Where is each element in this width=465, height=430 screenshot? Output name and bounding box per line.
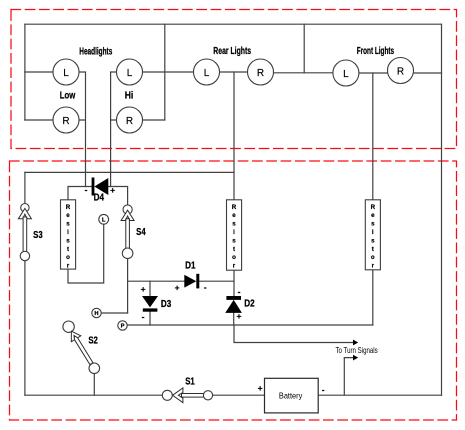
wire: rear tap down to middle resistor (233, 72, 235, 200)
svg-text:R: R (126, 116, 133, 127)
svg-text:-: - (142, 312, 145, 322)
pilot lamp L (99, 214, 109, 224)
lower dashed enclosure (control zone) (10, 161, 457, 420)
wire: mid horizontal feed to middle resistor (25, 171, 234, 173)
svg-text:Front Lights: Front Lights (357, 46, 394, 57)
svg-text:+: + (110, 185, 115, 195)
svg-text:S2: S2 (88, 335, 98, 346)
svg-text:L: L (127, 68, 133, 79)
resistor R-right (365, 200, 380, 270)
wire: Rear L to Rear R with tap (220, 71, 248, 73)
lamp Front-R (388, 58, 414, 84)
lamp letters (62, 67, 404, 128)
pilot lamp P (118, 321, 127, 330)
switch S3 (18, 204, 43, 261)
wire: bottom bus to S1 (25, 394, 163, 396)
wire: Front R to right bus (413, 72, 441, 74)
node arrow: to turn signals lower (353, 355, 358, 361)
svg-text:-: - (204, 282, 207, 292)
pilot lamp H (92, 308, 101, 317)
wire: S3 to bottom bus (24, 261, 26, 396)
svg-text:+: + (237, 311, 242, 321)
wire: D3 bottom leg (149, 312, 151, 325)
wire: H pilot to S4 vertical (101, 312, 127, 314)
lamp Low-R (53, 107, 79, 133)
wire: S4 bottom to H corner (127, 259, 129, 314)
svg-text:D2: D2 (244, 298, 255, 309)
wire: S2 bottom to bottom bus (93, 374, 95, 396)
wire: D4 row left to resistor corner (68, 187, 92, 200)
wire: Low L feed (25, 71, 53, 73)
svg-text:L: L (102, 217, 106, 223)
wire: Hi R to vertical (143, 119, 165, 121)
lamp Hi-R (117, 107, 143, 133)
svg-text:L: L (204, 68, 210, 79)
svg-text:D1: D1 (185, 261, 196, 272)
wire: D2 to P row (233, 313, 235, 325)
svg-text:To Turn Signals: To Turn Signals (336, 345, 378, 355)
wire: Front L to Front R (359, 72, 388, 74)
wire: divider vertical from top bus (303, 24, 305, 73)
wire: Hi lamps common vertical down to D4 anode (111, 72, 117, 187)
svg-text:R: R (397, 67, 404, 78)
wire: left drop to S3 (24, 172, 26, 203)
node arrow: to turn signals upper (353, 340, 358, 346)
section labels (60, 46, 394, 101)
lamp Front-L (333, 60, 359, 86)
svg-text:+: + (175, 283, 180, 293)
svg-text:Low: Low (60, 91, 76, 102)
svg-text:+: + (141, 284, 146, 294)
svg-text:-: - (85, 185, 88, 195)
svg-text:D4: D4 (94, 192, 105, 203)
wire: S1 to battery plus (213, 394, 265, 396)
svg-text:-: - (322, 385, 325, 395)
lamp Rear-R (248, 59, 274, 85)
wire: D1 row (128, 280, 234, 282)
svg-text:+: + (258, 383, 263, 393)
svg-text:H: H (94, 311, 98, 317)
svg-text:-: - (238, 287, 241, 297)
wire: top bus (25, 23, 442, 25)
diode D4 (92, 178, 109, 196)
wire: D3 top leg (149, 281, 151, 296)
svg-text:S4: S4 (136, 227, 146, 238)
wire: front tap down to right resistor (372, 73, 374, 200)
lamp Low-L (53, 59, 79, 85)
wire: P row (127, 324, 373, 326)
resistor R-middle (227, 200, 242, 270)
wire: middle resistor bottom through D1 node to D2 (233, 270, 235, 296)
diode D1 (184, 274, 199, 289)
diode D2 (225, 296, 242, 313)
wire: D4 row right to S4 corner (108, 187, 127, 205)
svg-text:Battery: Battery (279, 392, 302, 401)
diode D3 (142, 296, 158, 312)
switch S1 (162, 376, 212, 402)
svg-text:L: L (63, 68, 69, 79)
wire: left vertical from top bus to Low R row (24, 24, 26, 120)
switch S4 (121, 205, 146, 259)
wire: Rear R to Front L (274, 72, 333, 74)
wire: turn signal feed upper (234, 325, 354, 343)
wire: turn signal feed lower from battery minus (344, 358, 353, 396)
svg-text:R: R (62, 116, 69, 127)
lamp Rear-L (194, 59, 220, 85)
svg-text:Headlights: Headlights (79, 46, 112, 57)
wire: vertical x=164.8 top bus to Hi R (164, 24, 166, 120)
wire: left resistor bottom to lamp L indicator (68, 224, 104, 283)
svg-text:R: R (257, 68, 264, 79)
wire: Hi L to Rear L row (143, 71, 194, 73)
svg-text:S1: S1 (185, 376, 195, 387)
wire: battery minus to right bus (318, 394, 441, 396)
svg-text:P: P (121, 324, 125, 330)
resistor R-left (61, 200, 76, 270)
svg-text:L: L (343, 69, 349, 80)
switch S2 (63, 321, 100, 374)
battery B1 (258, 378, 325, 413)
upper dashed enclosure (lighting zone) (11, 10, 457, 149)
lamp Hi-L (117, 59, 143, 85)
svg-text:D3: D3 (161, 299, 172, 310)
svg-text:S3: S3 (33, 230, 43, 241)
wire: Low lamps common vertical down to D4 cathode (79, 72, 86, 187)
svg-text:Rear Lights: Rear Lights (213, 46, 251, 57)
svg-text:Hi: Hi (125, 91, 134, 102)
wire: Low R feed (25, 119, 53, 121)
wire: right resistor bottom leg (372, 270, 374, 325)
wire: right bus vertical (441, 24, 443, 395)
